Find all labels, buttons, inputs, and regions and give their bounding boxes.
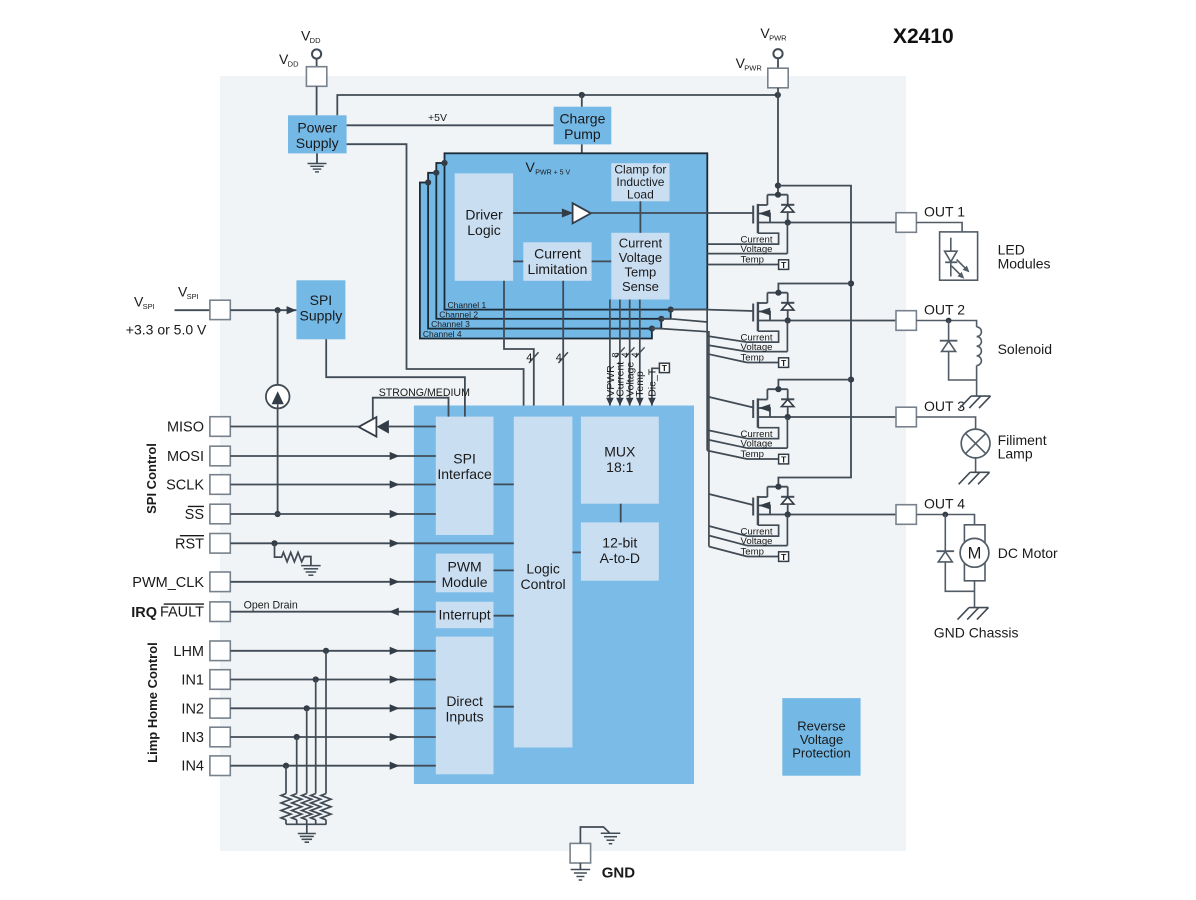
- current sense wire ch4: [747, 525, 779, 536]
- junction on LHM line: [323, 648, 329, 654]
- svg-text:Direct: Direct: [446, 693, 483, 709]
- voltage sense wire ch1: [707, 253, 787, 255]
- pin SCLK: [210, 475, 230, 495]
- junction VPWR branch: [775, 183, 781, 189]
- svg-text:Channel 3: Channel 3: [431, 319, 470, 329]
- Charge Pump block: [554, 107, 612, 145]
- flyback diode D6: [948, 321, 950, 341]
- ground for pull-downs: [306, 824, 308, 833]
- Channel 3 block: [428, 173, 661, 329]
- DC motor M1: [964, 525, 985, 581]
- svg-text:Power: Power: [297, 120, 337, 136]
- svg-text:4: 4: [526, 352, 532, 364]
- pin IN3: [210, 727, 230, 747]
- temp sense wire ch1: [707, 264, 778, 266]
- svg-text:Load: Load: [627, 188, 654, 202]
- svg-text:+5V: +5V: [428, 112, 447, 124]
- svg-text:Temp: Temp: [634, 371, 646, 397]
- sense fan-in channel 4: [709, 526, 747, 536]
- chassis ground (solenoid): [971, 395, 991, 397]
- 12-bit A-to-D block: [581, 522, 659, 580]
- gate driver buffer U1: [573, 203, 591, 223]
- junction OUT2 flyback branch: [946, 318, 952, 324]
- wire IN1: [230, 679, 435, 681]
- svg-text:Voltage: Voltage: [741, 438, 773, 449]
- svg-text:OUT 2: OUT 2: [924, 302, 965, 318]
- svg-text:Supply: Supply: [299, 308, 342, 324]
- svg-text:Current: Current: [619, 236, 663, 251]
- OUT2 wire: [758, 320, 896, 322]
- rail branch to channel 2: [778, 284, 851, 293]
- source node wire ch2: [767, 292, 787, 294]
- svg-text:IN4: IN4: [181, 759, 204, 775]
- svg-text:FAULT: FAULT: [160, 605, 204, 621]
- svg-text:DD: DD: [288, 60, 299, 69]
- current sense wire ch3: [747, 428, 779, 439]
- pin IN1: [210, 670, 230, 690]
- solenoid inductor L1: [977, 327, 982, 366]
- svg-text:Open Drain: Open Drain: [244, 600, 298, 612]
- sense fan-in channel 2: [707, 336, 747, 342]
- svg-text:DC Motor: DC Motor: [998, 545, 1058, 561]
- VPWR rail down to channel 1: [777, 88, 779, 196]
- wire Logic Control to 12-bit A-to-D: [572, 551, 581, 553]
- current source to SS pull-up: [277, 310, 279, 385]
- diagram background panel: [220, 76, 906, 851]
- svg-text:Lamp: Lamp: [998, 445, 1033, 461]
- wire PWM Module to Logic Control: [494, 569, 514, 571]
- svg-text:8: 8: [610, 352, 620, 357]
- pin OUT 4: [896, 505, 916, 525]
- solenoid bottom wire: [976, 366, 978, 397]
- stack corner junction dots (top-left): [441, 160, 447, 166]
- svg-text:SPI: SPI: [143, 302, 155, 311]
- svg-text:Voltage: Voltage: [741, 536, 773, 547]
- temp sensor T box ch4: [779, 552, 789, 562]
- svg-text:4: 4: [620, 352, 630, 357]
- svg-text:4: 4: [630, 352, 640, 357]
- transistor Q4 (high-side MOSFET ch4): [752, 498, 754, 516]
- svg-text:Inputs: Inputs: [446, 709, 484, 725]
- svg-text:Limp Home Control: Limp Home Control: [145, 642, 160, 763]
- wire Power Supply to Logic Control: [347, 144, 524, 416]
- junction on IN1 line: [313, 676, 319, 682]
- wire FAULT: [230, 611, 435, 613]
- wire RST: [230, 542, 514, 544]
- bus Current Limitation to Logic Control (4): [562, 281, 564, 417]
- pin FAULT: [210, 602, 230, 622]
- svg-text:SPI Control: SPI Control: [144, 443, 159, 514]
- pin OUT 1: [896, 213, 916, 233]
- voltage sense wire ch3: [747, 447, 787, 449]
- wire Power Supply to VPWR rail (top): [337, 95, 778, 115]
- wire Clamp to Sense block: [639, 201, 641, 233]
- pin IN2: [210, 699, 230, 719]
- source node wire ch1: [767, 194, 787, 196]
- temp sensor T box ch1: [779, 260, 789, 270]
- flyback diode D7: [944, 515, 946, 552]
- VPWR terminal pin square: [777, 58, 779, 68]
- source node wire ch3: [767, 388, 787, 390]
- junction above Charge Pump: [579, 92, 585, 98]
- Direct Inputs block: [436, 637, 494, 775]
- svg-text:Temp: Temp: [741, 255, 764, 266]
- wire VSPI pin to SPI Supply: [230, 309, 296, 311]
- svg-text:SCLK: SCLK: [166, 478, 204, 494]
- svg-text:Voltage: Voltage: [619, 250, 662, 265]
- svg-text:+3.3 or 5.0 V: +3.3 or 5.0 V: [126, 322, 207, 338]
- bus Driver Logic to Logic Control (4): [504, 281, 534, 417]
- svg-text:M: M: [968, 545, 982, 563]
- LED emission arrows: [957, 260, 967, 270]
- svg-text:T: T: [781, 358, 787, 368]
- svg-text:T: T: [781, 454, 787, 464]
- Power Supply block: [288, 115, 347, 153]
- SPI Supply block: [296, 280, 345, 339]
- wire MISO: [230, 426, 358, 428]
- svg-text:OUT 1: OUT 1: [924, 204, 965, 220]
- body diode D1: [787, 195, 789, 205]
- resistor R5 (pull-down): [296, 737, 298, 794]
- svg-text:IRQ: IRQ: [131, 605, 157, 621]
- wire SCLK: [230, 484, 435, 486]
- wire VDD to Power Supply: [316, 86, 318, 115]
- svg-text:PWM_CLK: PWM_CLK: [132, 575, 204, 591]
- svg-text:T: T: [781, 260, 787, 270]
- svg-text:18:1: 18:1: [606, 459, 633, 475]
- svg-text:T: T: [662, 363, 668, 373]
- svg-text:Sense: Sense: [622, 279, 659, 294]
- svg-text:Pump: Pump: [564, 126, 601, 142]
- pin LHM: [210, 641, 230, 661]
- Temp sense line to MUX (4): [639, 300, 641, 417]
- filament lamp LP1: [961, 429, 990, 458]
- VPWR terminal circle: [773, 49, 782, 58]
- junction OUT4 flyback branch: [942, 512, 948, 518]
- wire SPI Supply to SPI Interface: [326, 339, 465, 416]
- svg-text:SS: SS: [185, 507, 204, 523]
- VSPI pin square: [175, 309, 210, 311]
- svg-text:PWR: PWR: [769, 34, 787, 43]
- Current Limitation block: [523, 242, 591, 280]
- pin IN4: [210, 756, 230, 776]
- wire LHM: [230, 650, 435, 652]
- svg-text:Temp: Temp: [625, 265, 657, 280]
- temp sensor T box ch3: [779, 454, 789, 464]
- ground for RST pull-down: [301, 565, 321, 567]
- wire IN3: [230, 736, 435, 738]
- wire SPI Interface to Logic Control: [494, 483, 514, 485]
- svg-text:Temp: Temp: [741, 449, 764, 460]
- junction at VPWR rail: [775, 92, 781, 98]
- pin MISO: [210, 417, 230, 437]
- pin SS: [210, 504, 230, 524]
- svg-text:SPI: SPI: [310, 292, 333, 308]
- temp sense wire ch4: [747, 556, 779, 558]
- svg-text:Temp: Temp: [741, 353, 764, 364]
- svg-text:SPI: SPI: [187, 292, 199, 301]
- resistor R6 (pull-down): [285, 766, 287, 794]
- rail junction channel 3: [848, 377, 854, 383]
- resistor R4 (pull-down): [306, 708, 308, 793]
- ground below Power Supply: [316, 153, 318, 163]
- svg-text:T: T: [781, 552, 787, 562]
- pin MOSI: [210, 446, 230, 466]
- Channel 1 block: [445, 153, 708, 309]
- svg-text:IN2: IN2: [181, 701, 204, 717]
- gate wire channel 2: [671, 310, 754, 311]
- rail junction channel 2: [848, 280, 854, 286]
- SPI Interface block: [436, 417, 494, 535]
- resistor R1 (RST pull-down): [275, 543, 311, 565]
- wire MOSI: [230, 455, 435, 457]
- sense line arrowheads into logic block: [606, 398, 614, 406]
- transistor Q3 (high-side MOSFET ch3): [752, 400, 754, 418]
- Channel 4 block: [420, 183, 652, 339]
- svg-text:GND Chassis: GND Chassis: [934, 624, 1019, 640]
- transistor Q1 (high-side MOSFET ch1): [752, 206, 754, 224]
- motor bottom wire: [974, 581, 976, 608]
- wire buffer to MOSFET Q1 gate: [591, 212, 753, 214]
- svg-text:IN1: IN1: [181, 673, 204, 689]
- wire Interrupt to Logic Control: [494, 615, 514, 617]
- source node wire ch4: [767, 486, 787, 488]
- voltage sense wire ch4: [747, 545, 787, 547]
- VSPI junction: [275, 307, 281, 313]
- bus width slashes 8/4/4: [615, 347, 624, 357]
- pull-down common bus: [286, 823, 326, 825]
- GND external ground: [579, 863, 581, 870]
- body diode D3: [787, 389, 789, 399]
- svg-text:Supply: Supply: [296, 135, 339, 151]
- junction on IN2 line: [304, 705, 310, 711]
- resistor R2 (pull-down): [325, 651, 327, 794]
- Reverse Voltage Protection block: [782, 698, 860, 776]
- wire IN4: [230, 765, 435, 767]
- bundle feeders ch3/ch4: [661, 319, 707, 322]
- junction on RST line: [271, 540, 277, 546]
- wire Driver Logic to Current Limitation: [513, 260, 523, 262]
- Current sense line to MUX (8): [619, 300, 621, 417]
- wire charge pump to gate driver: [581, 144, 583, 210]
- GND terminal pin square: [570, 843, 591, 863]
- wire OUT3 to lamp: [916, 417, 975, 429]
- wire IN2: [230, 707, 435, 709]
- svg-text:Temp: Temp: [741, 547, 764, 558]
- svg-text:Control: Control: [521, 576, 566, 592]
- body diode D4: [787, 487, 789, 497]
- svg-text:Voltage: Voltage: [741, 342, 773, 353]
- gate driver input arrow: [562, 209, 574, 218]
- sense bundle vertical: [706, 310, 708, 451]
- svg-text:V: V: [526, 159, 536, 175]
- Voltage sense line to MUX (4): [629, 300, 631, 417]
- pin OUT 2: [896, 311, 916, 331]
- VDD terminal pin square: [316, 59, 318, 67]
- svg-text:MUX: MUX: [604, 443, 636, 459]
- rail branch to channel 3: [778, 380, 851, 389]
- chassis ground (lamp): [970, 471, 990, 473]
- svg-text:Protection: Protection: [792, 746, 851, 761]
- internal ground symbol: [601, 832, 621, 834]
- svg-text:Interface: Interface: [437, 466, 492, 482]
- svg-text:MOSI: MOSI: [167, 449, 204, 465]
- svg-text:RST: RST: [175, 536, 204, 552]
- T sensor box (die temp): [659, 363, 669, 372]
- svg-text:12-bit: 12-bit: [602, 534, 637, 550]
- svg-text:Limitation: Limitation: [528, 261, 588, 277]
- gate wire channel 3: [707, 397, 753, 408]
- Current Voltage Temp Sense block: [611, 233, 669, 300]
- main logic block: [414, 406, 694, 785]
- body diode D2: [787, 293, 789, 303]
- svg-text:Channel 4: Channel 4: [423, 329, 462, 339]
- svg-text:IN3: IN3: [181, 730, 204, 746]
- svg-text:PWR: PWR: [744, 64, 762, 73]
- VPWR loop rail to channels 2-4: [778, 186, 851, 487]
- svg-text:A-to-D: A-to-D: [600, 550, 640, 566]
- wire MUX to 12-bit A-to-D: [620, 504, 622, 523]
- Logic Control block: [514, 417, 573, 748]
- svg-text:PWR + 5 V: PWR + 5 V: [535, 169, 570, 176]
- Channel 2 block: [436, 163, 670, 319]
- svg-text:SPI: SPI: [453, 450, 476, 466]
- OUT4 wire: [758, 514, 896, 516]
- pin RST: [210, 534, 230, 554]
- svg-text:OUT 4: OUT 4: [924, 496, 965, 512]
- Interrupt block: [436, 602, 494, 629]
- OUT1 wire: [758, 222, 896, 224]
- wire OUT4 to DC motor: [916, 515, 974, 525]
- svg-text:MISO: MISO: [167, 420, 204, 436]
- svg-text:Voltage: Voltage: [741, 244, 773, 255]
- svg-text:PWM: PWM: [447, 558, 481, 574]
- svg-text:Current: Current: [534, 245, 581, 261]
- svg-text:Die_T: Die_T: [647, 368, 659, 397]
- svg-text:Logic: Logic: [526, 560, 559, 576]
- svg-text:Modules: Modules: [998, 255, 1051, 271]
- svg-text:Channel 1: Channel 1: [448, 300, 487, 310]
- wire OUT1 to LED module: [916, 223, 962, 232]
- svg-text:Module: Module: [442, 574, 488, 590]
- voltage sense wire ch2: [747, 351, 787, 353]
- VDD terminal circle: [312, 49, 321, 58]
- Driver Logic block: [455, 173, 513, 280]
- svg-text:LHM: LHM: [173, 644, 204, 660]
- Die_T line to MUX: [652, 368, 660, 416]
- temp sense wire ch2: [747, 362, 779, 364]
- LED D5 symbol: [950, 238, 952, 252]
- VPWR sense line to MUX: [609, 300, 611, 417]
- transistor Q2 (high-side MOSFET ch2): [752, 304, 754, 322]
- MUX 18:1 block: [581, 417, 659, 504]
- LED module load box: [940, 232, 978, 280]
- MISO output arrow: [377, 420, 389, 434]
- pin PWM_CLK: [210, 572, 230, 592]
- OUT3 wire: [758, 416, 896, 418]
- lamp bottom wire: [975, 458, 977, 472]
- svg-text:Logic: Logic: [467, 222, 500, 238]
- temp sense wire ch3: [747, 458, 779, 460]
- Clamp for Inductive Load block: [611, 163, 669, 201]
- PWM Module block: [436, 554, 494, 593]
- svg-text:DD: DD: [310, 36, 321, 45]
- sense fan-in channel 3: [707, 430, 747, 439]
- stack corner junction dots (bottom-right): [668, 307, 674, 313]
- svg-text:Driver: Driver: [465, 207, 503, 223]
- chassis ground (motor): [969, 607, 989, 609]
- wire Direct Inputs to Logic Control: [494, 706, 514, 708]
- svg-text:Channel 2: Channel 2: [439, 309, 478, 319]
- svg-text:OUT 3: OUT 3: [924, 398, 965, 414]
- junction on IN3 line: [294, 734, 300, 740]
- current sense wire ch1: [707, 233, 778, 244]
- wire Driver Logic to gate driver buffer: [513, 212, 562, 214]
- gate wire channel 4: [709, 494, 753, 505]
- pin OUT 3: [896, 407, 916, 427]
- tri-state buffer U2 (MISO): [359, 417, 377, 437]
- wire GND to internal ground: [580, 827, 609, 843]
- resistor R3 (pull-down): [315, 680, 317, 794]
- +5V wire Power Supply to Charge Pump: [347, 124, 554, 126]
- junction on IN4 line: [283, 763, 289, 769]
- svg-text:Charge: Charge: [559, 111, 605, 127]
- svg-text:GND: GND: [602, 865, 636, 882]
- svg-text:Solenoid: Solenoid: [998, 341, 1053, 357]
- current sense wire ch2: [747, 331, 779, 342]
- wire OUT2 to solenoid: [916, 321, 976, 327]
- svg-text:Interrupt: Interrupt: [439, 607, 491, 623]
- svg-text:X2410: X2410: [893, 25, 954, 48]
- wire PWM_CLK: [230, 581, 435, 583]
- svg-text:4: 4: [556, 352, 562, 364]
- wire SS: [230, 513, 435, 515]
- wire Current Limitation to Sense block: [592, 260, 612, 262]
- wire charge pump top: [581, 95, 583, 107]
- junction on SS line: [275, 511, 281, 517]
- temp sensor T box ch2: [779, 358, 789, 368]
- drive strength select bracket wire: [373, 398, 449, 420]
